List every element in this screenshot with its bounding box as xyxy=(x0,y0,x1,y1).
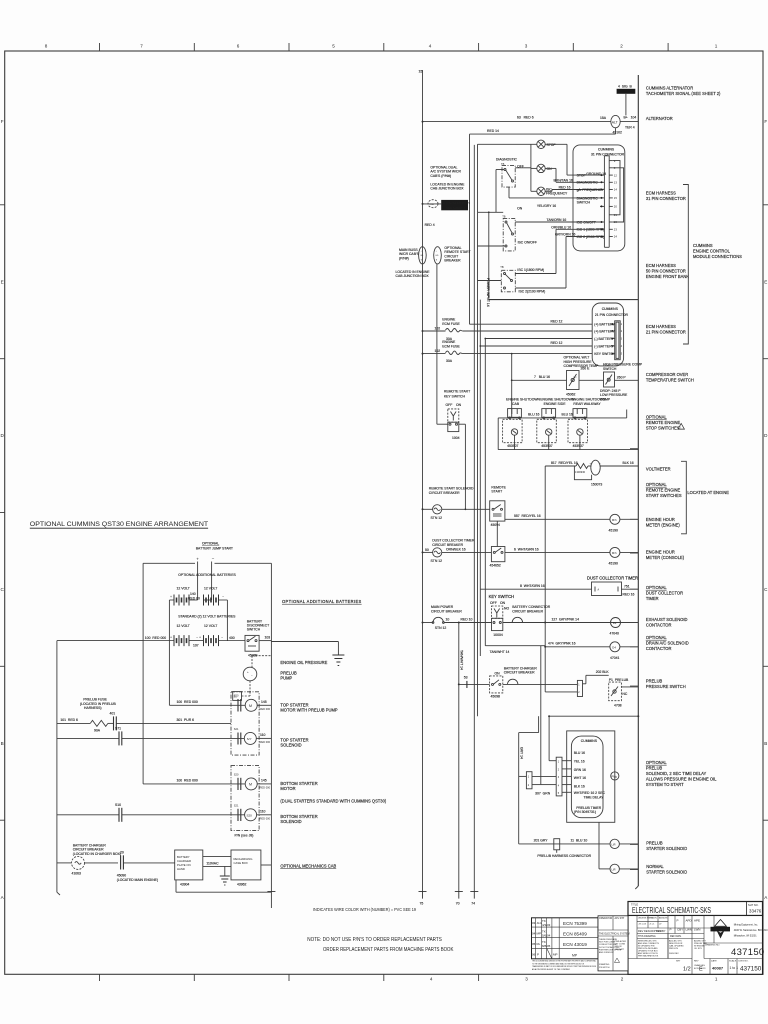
svg-text:RED 16: RED 16 xyxy=(623,593,635,597)
svg-text:ANGLES: ANGLES xyxy=(659,917,668,920)
svg-text:REV BY: REV BY xyxy=(656,929,666,933)
svg-text:GROUND 14: GROUND 14 xyxy=(586,172,606,176)
svg-text:DWG REV: DWG REV xyxy=(669,953,679,955)
svg-text:−: − xyxy=(251,673,253,677)
svg-text:CIRCUIT BREAKER: CIRCUIT BREAKER xyxy=(431,609,462,613)
svg-text:75: 75 xyxy=(420,902,424,906)
svg-text:(P/N 3049731): (P/N 3049731) xyxy=(574,810,596,814)
svg-text:40087: 40087 xyxy=(712,966,724,971)
svg-text:ON: ON xyxy=(495,672,501,676)
svg-text:43962: 43962 xyxy=(237,883,247,887)
svg-text:NC: NC xyxy=(574,377,578,379)
svg-text:BLU 16: BLU 16 xyxy=(528,413,539,417)
svg-text:MOTOR WITH PRELUB PUMP: MOTOR WITH PRELUB PUMP xyxy=(280,707,338,712)
svg-text:110VAC: 110VAC xyxy=(206,861,219,865)
svg-text:12 VOLT: 12 VOLT xyxy=(204,587,217,591)
svg-text:B: B xyxy=(764,741,767,746)
svg-text:STARTER SOLENOID: STARTER SOLENOID xyxy=(646,870,687,875)
svg-text:OPTIONAL: OPTIONAL xyxy=(646,482,667,487)
svg-text:7: 7 xyxy=(140,44,143,49)
svg-text:30A: 30A xyxy=(446,359,453,363)
svg-text:21 PIN CONNECTOR: 21 PIN CONNECTOR xyxy=(595,313,629,317)
svg-text:ALTERNATOR: ALTERNATOR xyxy=(646,116,673,121)
svg-text:M: M xyxy=(249,704,252,708)
svg-text:ELECTRICAL SCHEMATIC-SKS: ELECTRICAL SCHEMATIC-SKS xyxy=(632,906,711,915)
svg-text:S21: S21 xyxy=(234,804,239,808)
svg-text:S21: S21 xyxy=(234,727,239,731)
svg-text:MODULE CONNECTIONS: MODULE CONNECTIONS xyxy=(693,254,742,259)
svg-text:DUST COLLECTOR: DUST COLLECTOR xyxy=(646,591,683,596)
svg-text:L/R: L/R xyxy=(612,867,616,871)
svg-text:DIAGNOSTIC: DIAGNOSTIC xyxy=(496,158,518,162)
svg-text:MP: MP xyxy=(537,932,542,936)
svg-text:LWN: LWN xyxy=(694,928,700,932)
svg-text:PRESSURE SWITCH: PRESSURE SWITCH xyxy=(646,684,686,689)
svg-text:P/N 437150: P/N 437150 xyxy=(599,967,610,969)
svg-text:ORN/BLK 16: ORN/BLK 16 xyxy=(446,547,466,551)
svg-text:03: 03 xyxy=(532,921,536,925)
svg-text:MOTOR: MOTOR xyxy=(280,786,295,791)
svg-text:101 RED 6: 101 RED 6 xyxy=(60,718,78,722)
svg-text:SOLENOID: SOLENOID xyxy=(280,819,301,824)
svg-text:20: 20 xyxy=(120,851,124,855)
svg-text:2: 2 xyxy=(620,44,623,49)
svg-text:33476: 33476 xyxy=(749,909,762,914)
svg-text:RED 14: RED 14 xyxy=(487,129,499,133)
svg-text:KEY SWITCH: KEY SWITCH xyxy=(444,395,466,399)
svg-text:Milwaukee, WI 53201: Milwaukee, WI 53201 xyxy=(734,935,758,938)
svg-text:ISC ON/OFF: ISC ON/OFF xyxy=(518,241,537,245)
svg-text:ENGINE HOUR: ENGINE HOUR xyxy=(646,550,675,555)
svg-text:SWITCH: SWITCH xyxy=(247,628,261,632)
svg-text:RED 000: RED 000 xyxy=(260,786,271,790)
svg-text:M/h: M/h xyxy=(612,551,617,555)
svg-text:4708: 4708 xyxy=(614,703,622,707)
svg-text:THIS DRAWING: THIS DRAWING xyxy=(638,935,656,938)
svg-text:TIMER: TIMER xyxy=(646,596,659,601)
svg-text:RED 12: RED 12 xyxy=(551,319,563,323)
svg-text:6: 6 xyxy=(237,44,240,49)
svg-text:BREAKER: BREAKER xyxy=(444,259,461,263)
svg-text:SHT: SHT xyxy=(676,961,681,963)
svg-text:+: + xyxy=(247,670,249,674)
svg-text:GRY/ORN 16: GRY/ORN 16 xyxy=(555,233,576,237)
svg-text:STOP: STOP xyxy=(577,174,587,178)
svg-text:APE: APE xyxy=(694,919,700,923)
svg-text:LOCATED AT ENGINE: LOCATED AT ENGINE xyxy=(687,490,729,495)
svg-text:PRELUB HARNESS CONNECTOR: PRELUB HARNESS CONNECTOR xyxy=(537,854,591,858)
svg-text:REMOTE START: REMOTE START xyxy=(444,390,470,394)
svg-text:FREQUENCY: FREQUENCY xyxy=(546,192,568,196)
svg-text:INDICATES WIRE COLOR WITH (NUM: INDICATES WIRE COLOR WITH (NUMBER) = PVC… xyxy=(313,907,417,912)
svg-text:04: 04 xyxy=(532,932,536,936)
svg-text:45190: 45190 xyxy=(609,562,619,566)
svg-text:ECM HARNESS: ECM HARNESS xyxy=(646,263,676,268)
svg-text:L/R: L/R xyxy=(612,842,616,846)
svg-text:(DUAL STARTERS STANDARD WITH C: (DUAL STARTERS STANDARD WITH CUMMINS QST… xyxy=(280,799,386,804)
svg-text:APD: APD xyxy=(686,919,693,923)
svg-text:±1°: ±1° xyxy=(659,924,662,926)
svg-text:21 PIN CONNECTOR: 21 PIN CONNECTOR xyxy=(646,330,686,335)
svg-text:SOLENOID: SOLENOID xyxy=(280,742,301,747)
svg-text:OPTIONAL: OPTIONAL xyxy=(646,415,667,420)
svg-text:260 E: 260 E xyxy=(581,366,591,370)
svg-text:CAB'S (P/N#): CAB'S (P/N#) xyxy=(430,174,451,178)
svg-text:START SWITCHES: START SWITCHES xyxy=(646,493,682,498)
svg-text:PER MACHINE BOOK: PER MACHINE BOOK xyxy=(638,955,659,958)
svg-text:103: 103 xyxy=(265,636,271,640)
svg-text:SOLENOID, 2 SEC TIME DELAY: SOLENOID, 2 SEC TIME DELAY xyxy=(646,771,707,776)
svg-text:(P/N#): (P/N#) xyxy=(399,256,409,260)
svg-text:MP: MP xyxy=(553,953,558,957)
svg-text:15: 15 xyxy=(614,196,618,200)
svg-text:CAB JUNCTION BOX: CAB JUNCTION BOX xyxy=(396,274,430,278)
svg-text:−: − xyxy=(222,595,224,599)
svg-text:RED 12: RED 12 xyxy=(551,341,563,345)
svg-text:BLU 16: BLU 16 xyxy=(562,413,573,417)
svg-text:RED 4: RED 4 xyxy=(425,223,435,227)
svg-text:45094: 45094 xyxy=(491,523,501,527)
svg-text:BATTERY JUMP START: BATTERY JUMP START xyxy=(196,546,233,550)
svg-text:ECM FUSE: ECM FUSE xyxy=(442,322,460,326)
svg-text:S10: S10 xyxy=(115,803,121,807)
svg-text:PMg: PMg xyxy=(612,774,618,778)
svg-text:401: 401 xyxy=(110,712,116,716)
svg-text:ON: ON xyxy=(500,601,506,605)
svg-text:CUMMINS: CUMMINS xyxy=(581,739,598,743)
svg-text:BLK 16: BLK 16 xyxy=(574,785,585,789)
svg-text:06: 06 xyxy=(532,953,536,957)
svg-text:145: 145 xyxy=(261,700,267,704)
svg-text:P/N (see J8): P/N (see J8) xyxy=(235,834,254,838)
svg-text:OFF ON: OFF ON xyxy=(446,403,462,407)
svg-text:P: P xyxy=(677,919,679,923)
svg-text:F: F xyxy=(764,119,767,124)
svg-text:METER (CONSOLE): METER (CONSOLE) xyxy=(646,555,685,560)
svg-text:CUMMINS: CUMMINS xyxy=(693,243,713,248)
svg-text:D2: D2 xyxy=(613,621,617,625)
svg-text:Mining Equipment, Inc.: Mining Equipment, Inc. xyxy=(734,924,759,927)
svg-text:E: E xyxy=(764,280,767,285)
svg-text:TAN/WHT 14: TAN/WHT 14 xyxy=(490,650,510,654)
svg-text:PRELUB: PRELUB xyxy=(646,679,663,684)
svg-text:STOP: STOP xyxy=(547,143,557,147)
svg-text:PWR ALTER: PWR ALTER xyxy=(615,940,627,943)
svg-text:50: 50 xyxy=(425,548,429,552)
svg-text:107: 107 xyxy=(193,644,199,648)
svg-text:POWER INPUT 14: POWER INPUT 14 xyxy=(486,278,490,307)
svg-text:RL: RL xyxy=(537,942,541,946)
svg-text:REF DWG: REF DWG xyxy=(670,935,681,938)
svg-text:KEY SWITCH: KEY SWITCH xyxy=(489,594,514,599)
svg-text:NO: NO xyxy=(504,606,509,610)
svg-text:OPTIONAL: OPTIONAL xyxy=(646,635,667,640)
svg-text:STN 12: STN 12 xyxy=(431,559,443,563)
svg-text:METER (ENGINE): METER (ENGINE) xyxy=(646,523,681,528)
svg-text:DRAWING NO.: DRAWING NO. xyxy=(705,944,720,947)
svg-text:ECN 85409: ECN 85409 xyxy=(563,931,587,936)
svg-text:STN 12: STN 12 xyxy=(431,516,443,520)
svg-text:ORN/BLU 16: ORN/BLU 16 xyxy=(551,225,571,229)
svg-text:SCALE: SCALE xyxy=(729,960,737,963)
svg-text:TEMPERATURE SWITCH: TEMPERATURE SWITCH xyxy=(646,378,694,383)
svg-text:CAB BATT: CAB BATT xyxy=(615,948,625,951)
svg-text:ENGINE OIL PRESSURE: ENGINE OIL PRESSURE xyxy=(280,660,327,665)
svg-text:REV: REV xyxy=(694,961,699,963)
svg-text:(LOCATED IN CHARGER BOX): (LOCATED IN CHARGER BOX) xyxy=(73,852,121,856)
svg-text:YEL 16: YEL 16 xyxy=(574,759,585,763)
svg-text:ENGINE SIDE: ENGINE SIDE xyxy=(544,402,567,406)
svg-text:90A: 90A xyxy=(94,729,101,733)
svg-text:TACHOMETER SIGNAL (SEE SHEET 2: TACHOMETER SIGNAL (SEE SHEET 2) xyxy=(646,91,721,96)
svg-text:CAB: CAB xyxy=(512,402,520,406)
svg-text:ENGINE HOUR: ENGINE HOUR xyxy=(646,517,675,522)
svg-text:13: 13 xyxy=(614,181,618,185)
svg-text:ENGINE CONTROL: ENGINE CONTROL xyxy=(693,249,731,254)
svg-text:CUMMINS: CUMMINS xyxy=(598,147,615,151)
svg-text:2: 2 xyxy=(621,977,624,982)
svg-text:260 P: 260 P xyxy=(617,376,627,380)
svg-text:+: + xyxy=(196,557,199,562)
svg-text:1004: 1004 xyxy=(452,436,460,440)
svg-text:12: 12 xyxy=(614,173,618,177)
svg-text:OPERATOR: OPERATOR xyxy=(599,917,612,920)
svg-text:102: 102 xyxy=(435,349,441,353)
svg-text:GRY 14: GRY 14 xyxy=(520,747,524,759)
svg-text:SWITCH: SWITCH xyxy=(603,367,617,371)
svg-text:C: C xyxy=(764,587,768,592)
svg-text:110: 110 xyxy=(260,810,266,814)
svg-text:WHT 16: WHT 16 xyxy=(574,776,586,780)
svg-text:COMPRESSOR OVER: COMPRESSOR OVER xyxy=(646,372,688,377)
svg-text:THE ELECTRICAL SYSTEM: THE ELECTRICAL SYSTEM xyxy=(599,933,630,936)
svg-text:YEL/GRY 16: YEL/GRY 16 xyxy=(537,204,556,208)
svg-text:10004: 10004 xyxy=(493,633,503,637)
svg-text:CONTACTOR: CONTACTOR xyxy=(646,646,672,651)
svg-text:4400 W. National Ave. BOX 310: 4400 W. National Ave. BOX 310 xyxy=(734,929,768,932)
svg-text:45062: 45062 xyxy=(566,393,576,397)
svg-text:4: 4 xyxy=(430,977,433,982)
svg-text:CIRCUIT BREAKER: CIRCUIT BREAKER xyxy=(429,491,460,495)
svg-text:PRELUB: PRELUB xyxy=(646,841,663,846)
svg-text:CIRCUIT BREAKER: CIRCUIT BREAKER xyxy=(432,543,463,547)
svg-text:05: 05 xyxy=(532,942,536,946)
svg-text:MP: MP xyxy=(572,954,578,958)
svg-text:23: 23 xyxy=(614,228,618,232)
svg-text:NOTE: DO NOT USE P/N'S TO ORDE: NOTE: DO NOT USE P/N'S TO ORDER REPLACEM… xyxy=(307,937,442,943)
svg-text:OIL SYS: OIL SYS xyxy=(694,948,702,950)
svg-text:DWG NO.: DWG NO. xyxy=(739,961,749,963)
svg-text:100 RED 000: 100 RED 000 xyxy=(177,779,198,783)
svg-text:RED 000: RED 000 xyxy=(260,816,271,820)
svg-text:45190: 45190 xyxy=(609,529,619,533)
svg-text:12 VOLT: 12 VOLT xyxy=(177,624,190,628)
svg-text:817 RED/YEL 16: 817 RED/YEL 16 xyxy=(551,461,578,465)
svg-text:7 BLU 16: 7 BLU 16 xyxy=(534,375,550,379)
svg-text:TO THE ORIGINATING COMPANY AND: TO THE ORIGINATING COMPANY AND SHALL NOT… xyxy=(532,962,584,965)
svg-text:437150: 437150 xyxy=(731,947,765,958)
svg-text:REMOTE ENGINE: REMOTE ENGINE xyxy=(646,488,681,493)
svg-text:(LOCATED MAIN ENGINE): (LOCATED MAIN ENGINE) xyxy=(117,878,158,882)
svg-text:+: + xyxy=(170,635,172,639)
svg-text:OPTIONAL: OPTIONAL xyxy=(646,760,667,765)
svg-text:RED 16: RED 16 xyxy=(559,186,571,190)
svg-text:TIME DELAY: TIME DELAY xyxy=(584,795,605,799)
svg-text:STARTER SOLENOID: STARTER SOLENOID xyxy=(646,846,687,851)
svg-text:TB: TB xyxy=(500,265,504,269)
svg-text:ISC 1(1800 RPM): ISC 1(1800 RPM) xyxy=(517,268,544,272)
svg-text:70: 70 xyxy=(456,902,460,906)
svg-text:10: 10 xyxy=(446,617,450,621)
svg-text:453907: 453907 xyxy=(573,444,584,448)
svg-text:B+ 104: B+ 104 xyxy=(624,115,637,119)
svg-text:OPTIONAL ADDITIONAL BATTERIES: OPTIONAL ADDITIONAL BATTERIES xyxy=(178,573,236,577)
svg-text:NC: NC xyxy=(622,692,627,696)
svg-text:HARNISCHFEGER: HARNISCHFEGER xyxy=(711,928,730,932)
svg-text:453907: 453907 xyxy=(507,444,518,448)
svg-text:START: START xyxy=(491,490,502,494)
svg-text:OPTIONAL: OPTIONAL xyxy=(646,585,667,590)
svg-text:E: E xyxy=(1,280,4,285)
svg-text:D4: D4 xyxy=(612,645,616,649)
svg-text:TER 4: TER 4 xyxy=(625,126,635,130)
svg-text:B: B xyxy=(1,741,4,746)
svg-text:HARNESS): HARNESS) xyxy=(84,706,102,710)
svg-text:PER ECN: PER ECN xyxy=(669,948,678,950)
svg-text:ALLOWS PRESSURE IN ENGINE OIL: ALLOWS PRESSURE IN ENGINE OIL xyxy=(646,777,717,782)
svg-text:S/Y: S/Y xyxy=(247,737,252,741)
svg-text:M/h: M/h xyxy=(612,518,617,522)
svg-text:100 RED 000: 100 RED 000 xyxy=(145,636,166,640)
svg-text:P: P xyxy=(670,928,672,932)
svg-text:SEE SHEET 4: SEE SHEET 4 xyxy=(446,206,466,210)
svg-text:12 VOLT: 12 VOLT xyxy=(177,587,190,591)
svg-text:8: 8 xyxy=(45,44,48,49)
svg-text:RED 10: RED 10 xyxy=(461,617,473,621)
svg-text:OPTIONAL: OPTIONAL xyxy=(202,542,219,546)
svg-text:− +: − + xyxy=(196,635,201,639)
svg-text:STN 12: STN 12 xyxy=(435,626,447,630)
svg-text:11 BLU 10: 11 BLU 10 xyxy=(571,839,588,843)
svg-text:1/2: 1/2 xyxy=(683,967,691,973)
svg-text:24: 24 xyxy=(614,235,618,239)
svg-text:20: 20 xyxy=(614,205,618,209)
svg-text:ECN 75399: ECN 75399 xyxy=(563,921,587,926)
svg-text:REAR WALKWAY: REAR WALKWAY xyxy=(573,402,601,406)
svg-text:PUMP: PUMP xyxy=(280,675,292,680)
svg-text:4: 4 xyxy=(429,44,432,49)
svg-text:D: D xyxy=(764,433,768,438)
svg-text:127 GRY/PNK 14: 127 GRY/PNK 14 xyxy=(552,617,580,621)
svg-text:PRELUB: PRELUB xyxy=(646,766,663,771)
svg-text:P1 PRELUB: P1 PRELUB xyxy=(609,678,629,682)
svg-text:SWITCH: SWITCH xyxy=(577,201,591,205)
svg-text:CIRCUIT BREAKER: CIRCUIT BREAKER xyxy=(512,609,543,613)
svg-text:4 SIG B: 4 SIG B xyxy=(618,84,632,88)
svg-text:5: 5 xyxy=(332,44,335,49)
svg-text:−: − xyxy=(212,556,215,561)
svg-text:454652: 454652 xyxy=(490,564,501,568)
svg-text:SYSTEM TO START: SYSTEM TO START xyxy=(646,782,684,787)
svg-text:557 RED/YEL 16: 557 RED/YEL 16 xyxy=(514,514,541,518)
svg-text:DATE: DATE xyxy=(711,960,717,963)
svg-text:63 RED 6: 63 RED 6 xyxy=(517,116,534,120)
svg-text:3: 3 xyxy=(525,44,528,49)
svg-text:ECN 43019: ECN 43019 xyxy=(563,942,587,947)
svg-text:CAB JUNCTION BOX: CAB JUNCTION BOX xyxy=(430,187,464,191)
svg-text:47040: 47040 xyxy=(610,632,620,636)
svg-text:CUMMINS ALTERNATOR: CUMMINS ALTERNATOR xyxy=(646,86,693,91)
svg-text:145: 145 xyxy=(261,779,267,783)
svg-text:437150: 437150 xyxy=(740,966,762,973)
svg-text:CONTACTOR: CONTACTOR xyxy=(646,623,672,628)
svg-text:CBY: CBY xyxy=(677,928,683,932)
svg-text:−: − xyxy=(221,635,223,639)
svg-text:14: 14 xyxy=(614,188,618,192)
svg-text:3: 3 xyxy=(525,977,528,982)
svg-text:THIS DOCUMENT AND DESIGN IS TH: THIS DOCUMENT AND DESIGN IS THE PROPRIET… xyxy=(532,960,597,963)
svg-text:201 GRY: 201 GRY xyxy=(534,839,549,843)
svg-text:45098: 45098 xyxy=(491,695,501,699)
svg-text:DRAIN A/C SOLENOID: DRAIN A/C SOLENOID xyxy=(646,641,689,646)
svg-text:12 VOLT: 12 VOLT xyxy=(204,624,217,628)
svg-text:ECM HARNESS: ECM HARNESS xyxy=(646,191,676,196)
svg-text:ISC 2(2100 RPM): ISC 2(2100 RPM) xyxy=(519,290,546,294)
svg-text:GRN 16: GRN 16 xyxy=(574,768,586,772)
svg-text:+: + xyxy=(170,595,172,599)
svg-text:453907: 453907 xyxy=(541,444,552,448)
svg-text:.XX ±.03: .XX ±.03 xyxy=(638,924,647,926)
svg-text:15A: 15A xyxy=(600,116,607,120)
svg-text:SHT NO.: SHT NO. xyxy=(748,903,759,907)
svg-text:202 BLK: 202 BLK xyxy=(596,670,610,674)
svg-text:STAMPING: STAMPING xyxy=(599,963,610,966)
svg-text:307 GRN: 307 GRN xyxy=(535,791,551,795)
svg-text:DUST COLLECTOR TIMER: DUST COLLECTOR TIMER xyxy=(587,575,638,580)
svg-text:ON: ON xyxy=(547,167,553,171)
svg-text:HAND: HAND xyxy=(177,867,185,871)
svg-text:100 RED 000: 100 RED 000 xyxy=(177,700,198,704)
svg-text:CASE BOX: CASE BOX xyxy=(234,861,248,865)
svg-text:53: 53 xyxy=(464,675,468,679)
svg-text:S20: S20 xyxy=(234,694,239,698)
svg-text:ENGINE FRONT BANK: ENGINE FRONT BANK xyxy=(646,274,689,279)
svg-text:5/6/04: 5/6/04 xyxy=(542,934,551,938)
svg-text:TAN/WHT 14: TAN/WHT 14 xyxy=(460,650,464,670)
svg-text:ON: ON xyxy=(517,206,523,210)
svg-text:F: F xyxy=(1,119,4,124)
svg-text:P: P xyxy=(537,953,539,957)
svg-text:A/C SYSTEM BUSS: A/C SYSTEM BUSS xyxy=(443,201,470,205)
svg-text:E: E xyxy=(699,967,703,973)
svg-text:g/b FREQUENCY: g/b FREQUENCY xyxy=(577,188,605,192)
svg-text:474 GRY/PNK 16: 474 GRY/PNK 16 xyxy=(548,642,576,646)
svg-text:ECM FUSE: ECM FUSE xyxy=(442,344,460,348)
svg-text:6 WHT/GRN 16: 6 WHT/GRN 16 xyxy=(514,547,539,551)
svg-text:BRN/TAN 16: BRN/TAN 16 xyxy=(554,178,573,182)
svg-text:102: 102 xyxy=(435,327,441,331)
svg-text:CKD: CKD xyxy=(430,204,435,206)
svg-text:TRANSFERRED IN PART OR DOCUMEN: TRANSFERRED IN PART OR DOCUMENTATION WIT… xyxy=(532,965,596,968)
svg-text:TOL ON: TOL ON xyxy=(649,918,657,920)
svg-text:AND FORM 437: AND FORM 437 xyxy=(599,951,614,954)
svg-text:AN AUTHORIZED AGENT OF THE COM: AN AUTHORIZED AGENT OF THE COMPANY xyxy=(532,968,571,971)
svg-text:CIRCUIT BREAKER: CIRCUIT BREAKER xyxy=(504,671,535,675)
svg-text:TAN/ORN 16: TAN/ORN 16 xyxy=(547,218,567,222)
svg-text:110: 110 xyxy=(260,733,266,737)
svg-text:RED 000: RED 000 xyxy=(260,740,271,744)
svg-text:LWN: LWN xyxy=(686,928,692,932)
